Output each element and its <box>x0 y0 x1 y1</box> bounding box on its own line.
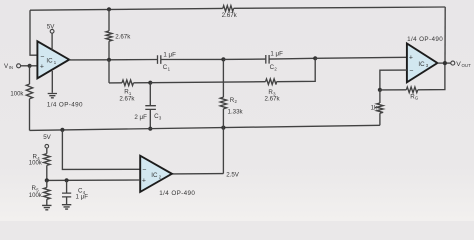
capacitor C4 <box>62 193 71 197</box>
wire IC2 noninverting input <box>47 179 140 181</box>
svg-text:IC: IC <box>46 57 53 64</box>
terminal 5V (divider) <box>45 144 49 148</box>
svg-text:1/4 OP-490: 1/4 OP-490 <box>407 36 443 43</box>
label IC3 <box>418 61 428 68</box>
svg-text:+: + <box>409 54 413 61</box>
resistor 2.67k (top feedback) <box>223 6 234 12</box>
capacitor C4 wire top <box>66 180 68 193</box>
label R3 <box>268 89 276 96</box>
wire top feedback rail from IC1 inverting input to VOUT riser <box>30 8 223 10</box>
capacitor C4 wire bottom <box>66 197 68 205</box>
wire VOUT riser from top rail <box>444 7 446 63</box>
label R4 <box>33 154 41 161</box>
svg-text:2.67k: 2.67k <box>265 96 281 103</box>
capacitor C2 <box>266 55 269 64</box>
node E junction dot (C3 top) <box>148 81 152 85</box>
ground (IC1) <box>48 94 57 98</box>
wire 2.5V rail <box>30 125 380 130</box>
capacitor C3 wire top <box>149 83 151 106</box>
node A junction dot <box>28 64 32 68</box>
node I junction dot (divider mid) <box>45 178 49 182</box>
node F junction dot (C3 on 2.5V rail) <box>148 127 152 131</box>
svg-text:2.5V: 2.5V <box>226 171 240 178</box>
wire R2 bottom to 2.5V rail and IC2 output <box>222 109 224 174</box>
wire node C to IC3 noninverting input <box>315 57 407 58</box>
svg-text:2.67k: 2.67k <box>222 12 238 19</box>
op-amp IC2 <box>140 156 172 192</box>
svg-text:2.67k: 2.67k <box>115 33 131 40</box>
resistor R3 <box>266 79 277 85</box>
label C2 <box>270 64 278 71</box>
wire node K to RG <box>380 89 406 91</box>
node D junction dot (IC1 output) <box>107 58 111 62</box>
IC1 5V supply wire <box>51 33 53 50</box>
svg-text:100k: 100k <box>29 160 43 166</box>
svg-text:100k: 100k <box>10 92 24 98</box>
svg-text:1k: 1k <box>371 105 378 112</box>
svg-text:5V: 5V <box>47 23 55 30</box>
wire C1 to node B <box>161 58 224 60</box>
svg-text:100k: 100k <box>29 193 43 199</box>
resistor R2 riser top <box>222 59 224 97</box>
label IC1 <box>46 57 56 64</box>
svg-text:1 μF: 1 μF <box>163 52 176 59</box>
svg-text:1 μF: 1 μF <box>76 194 89 201</box>
terminal 5V (IC1) <box>50 29 54 33</box>
resistor R4 <box>46 148 48 154</box>
node K junction dot (IC3 inv node) <box>378 88 382 92</box>
label C3 <box>154 113 162 120</box>
node C junction dot <box>313 56 317 60</box>
resistor R1 <box>122 80 134 86</box>
label R5 <box>32 185 40 192</box>
svg-text:1.33k: 1.33k <box>228 108 244 115</box>
resistor 100k (input) <box>29 66 31 84</box>
wire R3 to riser <box>277 58 316 81</box>
terminal VIN <box>17 64 21 68</box>
node B junction dot <box>221 57 225 61</box>
capacitor C1 <box>158 55 161 64</box>
svg-text:OUT: OUT <box>462 63 472 68</box>
ground (R5) <box>42 205 51 209</box>
wire node B to C2 <box>223 58 265 60</box>
wire node E to R3 <box>150 82 265 83</box>
wire RG to output riser <box>418 63 445 90</box>
svg-text:+: + <box>40 63 44 70</box>
node L junction dot (VOUT) <box>443 61 447 65</box>
wire IC3 inverting input <box>380 70 407 90</box>
svg-text:−: − <box>40 54 44 61</box>
label R2 <box>230 97 238 104</box>
wire VIN to node A <box>21 65 30 67</box>
node J junction dot (C4 tap) <box>65 178 69 182</box>
label IC2 <box>151 172 161 179</box>
wire node D down to R1 line <box>108 60 110 83</box>
node H junction dot (riser on 2.5V rail) <box>221 126 225 130</box>
svg-text:1/4 OP-490: 1/4 OP-490 <box>47 102 83 109</box>
label VIN <box>4 63 13 70</box>
op-amp IC3 <box>407 44 438 83</box>
label C4 <box>78 188 86 195</box>
wire IC3 output <box>437 62 450 64</box>
resistor RG <box>406 87 418 93</box>
resistor R2 <box>220 97 226 109</box>
op-amp IC1 <box>37 41 69 78</box>
svg-text:IC: IC <box>418 61 425 68</box>
wire IC2 output <box>172 173 224 175</box>
node G junction dot (IC2 inv drop) <box>60 128 64 132</box>
label C1 <box>163 64 171 71</box>
terminal VOUT <box>451 61 455 65</box>
svg-text:+: + <box>142 178 146 185</box>
wire IC1 output line to C1 <box>69 59 157 61</box>
svg-text:5V: 5V <box>43 134 51 141</box>
IC1 ground wire <box>51 71 53 93</box>
wire IC1 inverting input drop <box>30 10 37 55</box>
svg-text:1/4 OP-490: 1/4 OP-490 <box>159 190 195 197</box>
label R1 <box>124 89 132 96</box>
wire R1 line left segment <box>109 82 122 84</box>
resistor 1k <box>379 90 381 103</box>
svg-text:−: − <box>142 167 146 174</box>
label VOUT <box>456 61 471 68</box>
resistor R5 <box>46 180 48 187</box>
svg-text:1 μF: 1 μF <box>270 51 283 58</box>
svg-text:2.67k: 2.67k <box>119 96 135 103</box>
wire C2 to node C <box>269 57 315 60</box>
wire R1 to node E <box>134 82 151 84</box>
ground (C4) <box>62 205 71 209</box>
svg-text:2 μF: 2 μF <box>134 114 147 121</box>
wire IC2 inverting feedback drop <box>62 130 140 170</box>
wire node A to IC1 noninverting input <box>30 65 38 67</box>
label RG <box>410 93 419 100</box>
svg-text:IC: IC <box>151 172 158 179</box>
capacitor C3 <box>145 106 156 110</box>
svg-text:−: − <box>409 68 413 75</box>
capacitor C3 wire bottom <box>149 109 151 128</box>
svg-text:IN: IN <box>9 65 13 70</box>
vertical resistor 2.67k (x=109) <box>107 7 111 11</box>
svg-text:V: V <box>456 61 461 68</box>
